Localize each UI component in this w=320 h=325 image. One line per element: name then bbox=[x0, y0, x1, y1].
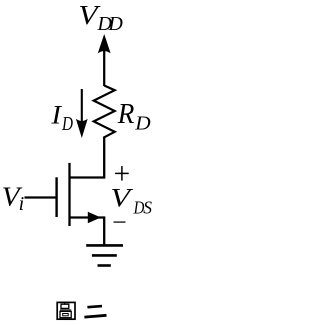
svg-text:I: I bbox=[50, 100, 63, 129]
svg-text:DD: DD bbox=[97, 13, 124, 35]
svg-text:D: D bbox=[134, 111, 150, 135]
svg-text:D: D bbox=[61, 112, 73, 134]
svg-text:V: V bbox=[110, 184, 133, 213]
svg-text:R: R bbox=[117, 98, 135, 129]
svg-text:i: i bbox=[19, 193, 25, 215]
svg-text:S: S bbox=[143, 197, 152, 217]
